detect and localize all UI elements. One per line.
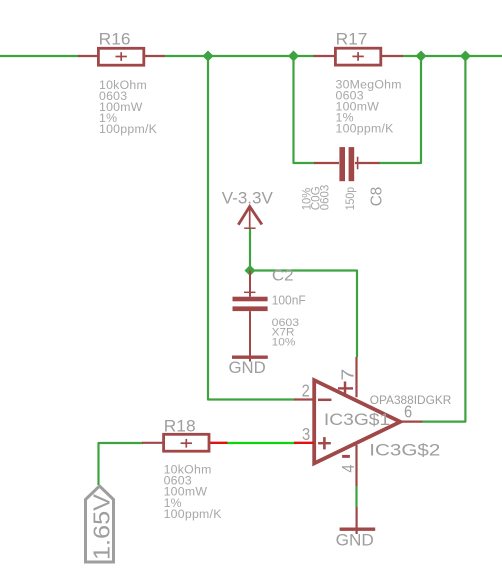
svg-text:R18: R18	[164, 418, 196, 436]
svg-text:3: 3	[302, 424, 310, 444]
wire net between op-amp pin 4 and GND	[355, 486, 357, 507]
V+ plus mark near pin 7	[338, 387, 353, 389]
pin 3 stub (highlighted)	[294, 442, 314, 444]
wire from junction to op-amp pin 7	[250, 271, 357, 358]
svg-text:GND: GND	[229, 359, 266, 377]
svg-text:C8: C8	[368, 187, 385, 207]
wire from C8 right up to top net	[379, 56, 422, 163]
svg-text:IC3G$1: IC3G$1	[324, 410, 390, 429]
svg-text:OPA388IDGKR: OPA388IDGKR	[370, 393, 452, 407]
non-inverting input plus mark	[318, 442, 331, 444]
svg-text:1.65V: 1.65V	[88, 493, 114, 560]
svg-text:2: 2	[302, 381, 310, 401]
resistor R18	[142, 434, 228, 451]
junction at C8 right branch	[416, 51, 427, 62]
supply symbol V-3.3V	[238, 207, 262, 230]
wire net between R16 and R17	[163, 55, 315, 57]
svg-text:4: 4	[338, 464, 358, 472]
wire highlighted net R18 to pin 3	[227, 442, 297, 444]
svg-text:R17: R17	[336, 30, 368, 48]
wire from top net down to op-amp output pin 6	[422, 56, 466, 422]
V- minus mark near pin 4	[342, 455, 350, 458]
junction at R16/vertical	[203, 51, 214, 62]
wire net right of R17 to edge	[402, 55, 502, 57]
resistor R17 value labels	[336, 78, 402, 136]
junction at V-3.3V / C2 node	[245, 265, 256, 276]
wire from 1.65V flag up to R18	[99, 443, 144, 485]
capacitor C8	[314, 147, 380, 181]
op-amp IC3	[294, 357, 422, 486]
capacitor C2 attribute labels	[272, 317, 300, 349]
capacitor C8 attribute labels (rotated)	[299, 184, 331, 210]
wire net top-left segment	[0, 55, 79, 57]
pin 6 stub	[401, 421, 422, 423]
wire vertical from junction down to C8 left	[294, 56, 316, 163]
capacitor C2	[233, 271, 268, 362]
svg-text:GND: GND	[336, 532, 374, 550]
svg-text:100nF: 100nF	[272, 292, 306, 307]
svg-text:7: 7	[338, 369, 358, 381]
junction at C8 left branch	[288, 51, 299, 62]
ground symbol GND at op-amp pin 4	[340, 507, 376, 534]
svg-text:150p: 150p	[343, 187, 357, 211]
svg-text:100ppm/K: 100ppm/K	[164, 507, 223, 521]
pin 7 stub	[355, 357, 357, 397]
svg-text:R16: R16	[99, 30, 131, 48]
svg-text:100ppm/K: 100ppm/K	[99, 122, 158, 136]
supply flag 1.65V	[86, 486, 114, 562]
svg-text:IC3G$2: IC3G$2	[369, 441, 440, 460]
svg-text:C2: C2	[272, 268, 294, 285]
svg-text:V-3.3V: V-3.3V	[222, 189, 274, 208]
resistor R18 value labels	[164, 463, 223, 521]
resistor R16 value labels	[99, 78, 158, 136]
inverting input minus mark	[318, 399, 331, 402]
svg-text:100ppm/K: 100ppm/K	[336, 122, 395, 136]
wire from V-3.3V supply down to junction	[249, 228, 251, 271]
svg-text:10%: 10%	[272, 337, 296, 349]
junction at output feedback branch	[460, 51, 471, 62]
resistor R16	[78, 48, 165, 65]
pin 4 stub	[355, 445, 357, 486]
wire vertical from top junction down to pin 2	[208, 56, 295, 400]
pin 2 stub	[294, 398, 313, 400]
resistor R17	[314, 48, 404, 65]
ground symbol GND at C2	[232, 356, 268, 359]
svg-text:0603: 0603	[317, 184, 331, 210]
